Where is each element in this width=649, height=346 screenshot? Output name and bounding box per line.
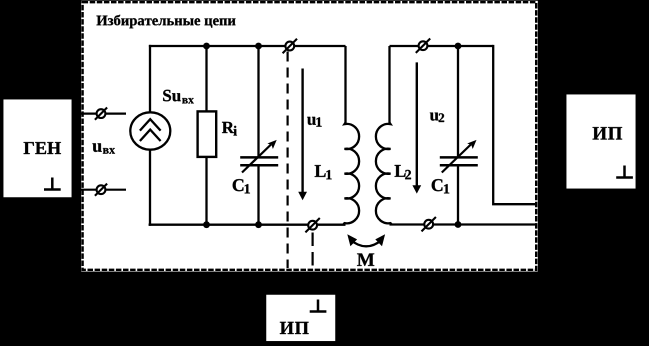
capacitor C1 right (variable): [440, 140, 478, 173]
node dot: C1-left top: [255, 43, 262, 50]
probe P2 on GEN bottom lead: [95, 184, 107, 196]
probe P4 on left bottom rail: [305, 218, 319, 232]
arrow u1: [298, 69, 307, 201]
wire: C1 left top lead: [257, 46, 259, 156]
label u1: [307, 117, 321, 127]
arrow u2: [412, 62, 421, 193]
capacitor C1 left (variable): [240, 140, 278, 173]
wire: right bottom rail: [390, 223, 538, 225]
label Ri: [222, 122, 237, 136]
inductor L2: [376, 46, 392, 225]
wire: current source top lead: [149, 45, 151, 113]
label L1: [315, 165, 332, 179]
wire: GEN bottom lead: [70, 189, 126, 191]
IP box bottom: [265, 294, 337, 343]
wire: left top rail: [149, 45, 346, 47]
wire: right output tap: [493, 45, 537, 204]
label Su_vx: [163, 90, 194, 104]
probe P6 on right bottom rail: [422, 217, 436, 231]
label C1 right: [432, 179, 450, 193]
ground symbol in bottom IP box: [310, 300, 327, 312]
IP box right: [565, 93, 637, 190]
ground symbol in right IP box: [616, 166, 633, 178]
probe P1 on GEN top lead: [95, 108, 107, 120]
mutual inductance arrow M: [347, 234, 385, 246]
wire: C1 right top lead: [457, 46, 459, 156]
wire: current source bottom lead: [149, 149, 151, 226]
node dot: C1-left bottom: [255, 221, 262, 228]
wire: resistor top lead: [205, 46, 207, 112]
label C1 left: [233, 179, 250, 193]
wire: resistor bottom lead: [205, 157, 207, 225]
wire: right top rail: [390, 45, 494, 47]
label u2: [430, 113, 444, 122]
resistor Ri: [198, 111, 217, 156]
node dot: C1-right bottom: [455, 221, 462, 228]
node dot: Ri top: [203, 43, 210, 50]
probe P5 on right top rail: [416, 39, 430, 53]
label u_vx: [93, 143, 116, 153]
wire: left bottom rail: [149, 224, 346, 226]
node dot: C1-right top: [455, 43, 462, 50]
label L2: [395, 165, 411, 179]
GEN box: [2, 98, 73, 198]
label M: [357, 254, 374, 266]
probe P3 on left top rail: [283, 39, 297, 53]
wire: C1 left bottom lead: [257, 166, 259, 224]
inductor L1: [343, 46, 359, 225]
current source symbol: [130, 112, 170, 149]
selective-circuits dashed box: [81, 1, 538, 272]
wire: C1 right bottom lead: [457, 166, 459, 224]
dashed measurement line from P4: [312, 233, 314, 269]
title: Избирательные цепи: [97, 15, 236, 29]
ground symbol in GEN box: [44, 178, 61, 190]
node dot: Ri bottom: [203, 221, 210, 228]
dashed measurement line from P3: [287, 52, 289, 269]
wire: GEN top lead: [70, 112, 126, 114]
